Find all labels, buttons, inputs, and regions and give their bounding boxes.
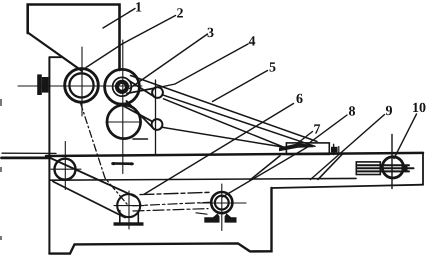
clamp body xyxy=(331,147,338,153)
idler bracket tick xyxy=(133,138,148,140)
label 10 xyxy=(413,103,418,112)
left arm board top xyxy=(2,152,56,154)
belt pulley-idler2 bottom xyxy=(120,104,153,122)
leader 5 xyxy=(213,71,268,102)
crank bracket right xyxy=(137,211,139,223)
handwheel xyxy=(382,157,403,178)
leader 2 xyxy=(86,16,176,68)
pulley hub xyxy=(117,82,127,92)
leader 10 xyxy=(394,114,417,159)
label 5 xyxy=(270,62,276,71)
crank bracket base xyxy=(114,222,144,225)
leader 9 xyxy=(311,115,385,180)
drum lower big circle xyxy=(107,105,141,139)
tension screw T symbol xyxy=(113,162,133,165)
crank v-centerline xyxy=(128,191,130,229)
crank h-centerline xyxy=(114,205,144,207)
long belt line from idler1 a xyxy=(164,95,315,146)
belt pulley-idler1 top xyxy=(128,80,154,96)
handwheel shaft stub xyxy=(402,165,408,171)
label 4 xyxy=(249,36,256,45)
machine body left edge xyxy=(48,57,50,253)
bearing v-centerline xyxy=(221,184,223,231)
label 9 xyxy=(386,106,392,115)
bearing foot right xyxy=(225,213,237,222)
left pulley v-centerline xyxy=(64,142,66,190)
label 3 xyxy=(208,28,214,37)
idler support line xyxy=(155,80,157,155)
roller R1 inner xyxy=(69,73,93,97)
table top edge xyxy=(46,153,423,156)
long belt line from idler2 xyxy=(162,127,288,148)
belt pulley-idler2 top xyxy=(127,101,153,128)
crank bracket left xyxy=(119,211,121,223)
belt upper run xyxy=(46,156,137,198)
base outline xyxy=(49,188,271,254)
belt lower run xyxy=(53,182,125,218)
label 7 xyxy=(314,124,320,133)
crank rod centerline dash-dot xyxy=(133,202,211,206)
clamp pin xyxy=(333,144,335,154)
table end diagonal right xyxy=(318,155,342,180)
T symbol end dot left xyxy=(112,162,115,165)
roller R1 outer xyxy=(65,69,99,103)
table front edge xyxy=(50,178,356,180)
bearing outer xyxy=(211,192,232,213)
leader 6 xyxy=(145,104,294,195)
table right block bottom xyxy=(272,185,424,188)
long belt line from idler1 b xyxy=(164,99,288,149)
crank pulley xyxy=(117,194,140,217)
table right edge xyxy=(422,153,424,185)
belt wedge black xyxy=(279,143,314,151)
label 6 xyxy=(296,94,302,103)
leader 4 xyxy=(159,44,249,88)
crank rod top line xyxy=(140,192,211,194)
long belt line upper xyxy=(131,76,318,142)
clamp tick xyxy=(338,147,340,154)
bearing foot left xyxy=(204,213,219,222)
carriage bracket xyxy=(286,143,329,155)
handwheel lever xyxy=(391,135,393,189)
label 2 xyxy=(177,8,183,17)
bearing base line left xyxy=(196,213,207,214)
horizontal centerline xyxy=(18,85,142,87)
pulley middle ring xyxy=(113,77,132,96)
screw hatch line 1 xyxy=(357,164,409,166)
drum centerline xyxy=(106,121,141,123)
hopper xyxy=(28,5,120,71)
left belt pulley xyxy=(55,159,76,180)
label 8 xyxy=(349,106,355,115)
edge noise marks xyxy=(0,99,2,106)
left pulley h-centerline xyxy=(51,168,81,170)
crank rod bottom line xyxy=(133,209,208,211)
idler 2 xyxy=(152,119,163,130)
hopper chute diagonal xyxy=(28,33,82,72)
knob flange xyxy=(37,74,42,95)
screw hatch line 2 xyxy=(357,167,414,169)
leader 8 xyxy=(305,115,348,147)
belt pulley-idler1 bottom xyxy=(127,88,154,93)
left arm board xyxy=(2,156,51,159)
bearing h-centerline xyxy=(198,202,246,204)
screw hatch line 3 xyxy=(357,170,409,172)
bearing inner xyxy=(215,196,229,210)
table end diagonal left xyxy=(250,156,280,180)
hopper step ledge xyxy=(49,56,62,58)
roller vertical centerline xyxy=(81,47,83,116)
leader 7 xyxy=(297,132,313,145)
leader 3 xyxy=(130,34,208,89)
pulley outer xyxy=(105,69,140,104)
screw cylinder xyxy=(356,162,380,175)
leader 1 xyxy=(103,9,135,29)
idler 1 xyxy=(152,87,163,98)
pulley vertical centerline xyxy=(122,40,124,174)
label 1 xyxy=(136,2,141,11)
roller-crank dash-dot linkage xyxy=(81,103,129,206)
knob hub xyxy=(42,77,49,93)
wedge to bearing link xyxy=(222,145,311,197)
T symbol end dot right xyxy=(130,162,133,165)
